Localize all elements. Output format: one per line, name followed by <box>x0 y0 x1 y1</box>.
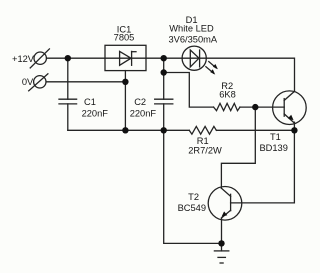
wire bottom rail right <box>216 129 294 131</box>
svg-text:C1: C1 <box>84 97 96 107</box>
transistor T2 <box>208 187 242 221</box>
svg-text:T2: T2 <box>188 192 199 202</box>
node junction dot +12V/C1 <box>65 55 71 61</box>
terminal 0V <box>34 76 46 88</box>
T2 emitter arrow head <box>222 211 228 216</box>
wire T2 emitter to ground <box>221 218 223 244</box>
wire node B to R2 <box>164 73 214 108</box>
wire LED to T1 collector corner <box>206 58 294 91</box>
node dot C2 / rail <box>161 127 167 133</box>
wire IC1 output to node A <box>146 57 182 59</box>
svg-text:220nF: 220nF <box>82 108 109 118</box>
transistor T1 <box>273 91 307 125</box>
wire C2 bottom lead <box>163 104 165 130</box>
wire R2 to T1 base <box>240 106 284 108</box>
wire bottom rail left <box>68 129 190 131</box>
svg-text:T1: T1 <box>270 132 281 142</box>
wire C1 bottom lead <box>67 104 69 130</box>
node B dot C2 top <box>161 69 167 75</box>
diode D1 (LED) <box>182 46 206 70</box>
svg-text:220nF: 220nF <box>130 108 157 118</box>
terminal +12V <box>34 52 46 64</box>
resistor R2 <box>214 103 241 110</box>
node dot T1 emitter / R1 <box>291 127 297 133</box>
node dot ground <box>218 240 224 246</box>
wire +12V rail <box>47 57 105 59</box>
node dot R2 / T1 base <box>252 104 258 110</box>
T1 emitter arrow head <box>288 115 294 121</box>
svg-text:BC549: BC549 <box>178 203 206 213</box>
wire T1 base node to T2 collector <box>221 107 255 188</box>
svg-text:+12V: +12V <box>12 54 35 64</box>
voltage regulator IC1 7805 <box>105 45 146 70</box>
svg-text:3V6/350mA: 3V6/350mA <box>169 34 218 44</box>
node dot IC1 gnd / rail <box>122 127 128 133</box>
svg-text:White LED: White LED <box>169 24 214 34</box>
svg-text:2R7/2W: 2R7/2W <box>188 145 222 155</box>
svg-text:BD139: BD139 <box>259 143 287 153</box>
LED arrow heads <box>213 64 218 69</box>
wire 0V rail <box>46 81 125 83</box>
wire IC1 ground drop <box>124 71 126 131</box>
capacitor C1 <box>59 98 77 100</box>
capacitor C2 <box>155 98 173 100</box>
wire T1 emitter to T2 base <box>231 130 295 203</box>
resistor R1 <box>189 126 216 134</box>
LED emission arrows <box>209 62 216 68</box>
wire ground return from C2 node <box>164 130 222 243</box>
svg-text:0V: 0V <box>22 77 34 87</box>
node A dot IC1 out <box>161 55 167 61</box>
svg-text:C2: C2 <box>134 97 146 107</box>
wire node A to node B <box>163 58 165 72</box>
wire C1 top lead <box>67 58 69 99</box>
ground <box>221 243 223 251</box>
wire C2 top lead <box>163 73 165 100</box>
svg-text:7805: 7805 <box>114 32 135 42</box>
svg-text:6K8: 6K8 <box>219 89 236 99</box>
node junction dot 0V/IC1 gnd <box>122 79 128 85</box>
